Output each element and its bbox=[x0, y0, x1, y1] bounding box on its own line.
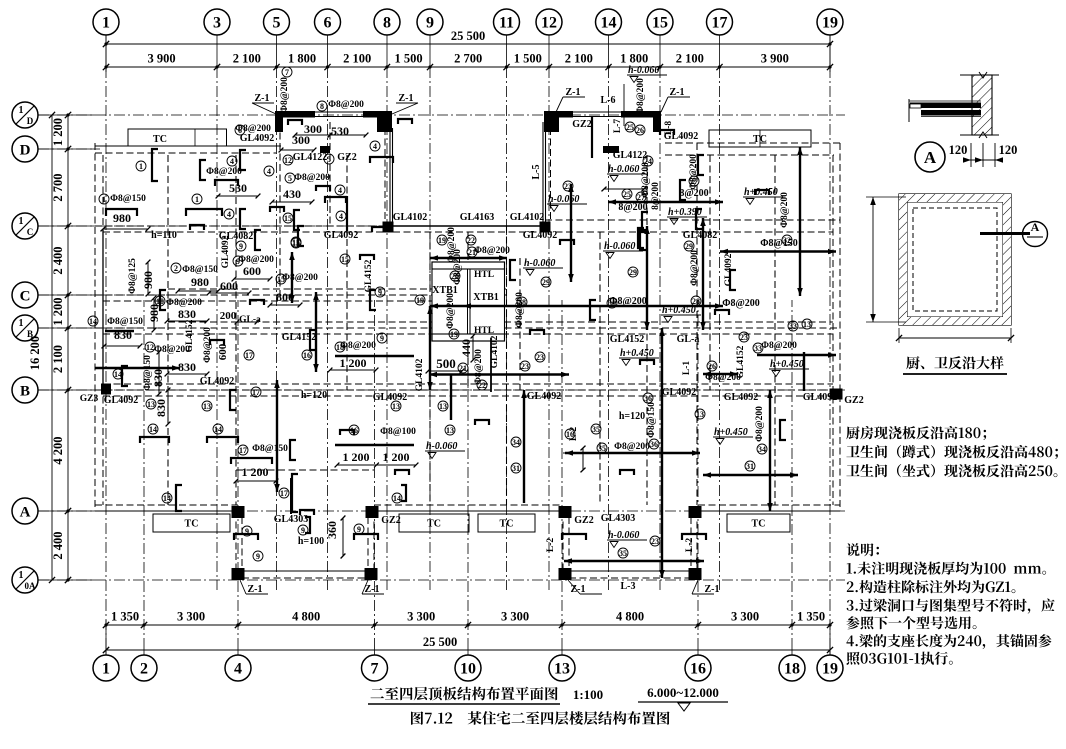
svg-text:Φ8@125: Φ8@125 bbox=[128, 258, 138, 294]
grid bubble 8 (top) bbox=[374, 9, 400, 35]
grid bubble 16 (bottom) bbox=[685, 655, 711, 681]
svg-text:24: 24 bbox=[644, 157, 652, 166]
svg-text:2 400: 2 400 bbox=[51, 246, 65, 274]
svg-text:Φ8@200: Φ8@200 bbox=[705, 373, 741, 383]
svg-text:Z-1: Z-1 bbox=[399, 93, 414, 104]
svg-text:GL4102: GL4102 bbox=[393, 212, 427, 223]
column (545,227) bbox=[540, 222, 551, 233]
grid bubble 15 (top) bbox=[647, 9, 673, 35]
svg-text:980: 980 bbox=[113, 211, 131, 225]
svg-text:2 100: 2 100 bbox=[51, 345, 65, 373]
svg-text:23: 23 bbox=[740, 333, 748, 342]
column (836,394) bbox=[830, 389, 843, 400]
svg-text:h=100: h=100 bbox=[298, 536, 324, 547]
svg-text:4 800: 4 800 bbox=[616, 610, 644, 624]
svg-text:Φ8@150: Φ8@150 bbox=[647, 402, 657, 438]
plan title bbox=[371, 687, 558, 701]
svg-text:19: 19 bbox=[438, 236, 446, 245]
svg-text:9: 9 bbox=[380, 334, 384, 343]
svg-text:GL4092: GL4092 bbox=[662, 387, 696, 398]
beam 34 phi8@200 vertical bbox=[769, 390, 771, 511]
column (106,389) bbox=[101, 384, 111, 395]
grid bubble 13 (bottom) bbox=[549, 655, 575, 681]
svg-text:35: 35 bbox=[592, 425, 600, 434]
svg-text:19: 19 bbox=[822, 15, 838, 32]
svg-text:6.000~12.000: 6.000~12.000 bbox=[647, 685, 719, 700]
svg-text:1 350: 1 350 bbox=[111, 610, 139, 624]
svg-text:GL4122: GL4122 bbox=[293, 152, 327, 163]
svg-text:3 300: 3 300 bbox=[177, 610, 205, 624]
svg-text:Φ8@200: Φ8@200 bbox=[446, 293, 456, 329]
grid bubble 1 (top) bbox=[93, 9, 119, 35]
svg-text:2: 2 bbox=[174, 264, 178, 273]
svg-text:18: 18 bbox=[784, 661, 800, 678]
svg-text:Z-1: Z-1 bbox=[248, 584, 263, 595]
svg-text:h+0.390: h+0.390 bbox=[668, 207, 702, 218]
svg-text:GL4092: GL4092 bbox=[527, 391, 561, 402]
leader lines bbox=[252, 102, 274, 104]
svg-text:9: 9 bbox=[236, 257, 240, 266]
svg-text:10: 10 bbox=[156, 297, 164, 306]
svg-text:13: 13 bbox=[696, 410, 704, 419]
svg-text:1: 1 bbox=[19, 105, 24, 116]
svg-text:Φ8@200: Φ8@200 bbox=[474, 349, 484, 385]
grid bubble 4 (bottom) bbox=[225, 655, 251, 681]
svg-text:h-0.060: h-0.060 bbox=[628, 65, 659, 76]
svg-text:21: 21 bbox=[468, 248, 476, 257]
svg-text:HTL: HTL bbox=[474, 270, 494, 280]
svg-text:1 800: 1 800 bbox=[620, 52, 648, 66]
svg-text:h+0.450: h+0.450 bbox=[662, 305, 696, 316]
svg-text:h-0.060: h-0.060 bbox=[426, 441, 457, 452]
column (388,227) bbox=[383, 222, 394, 233]
svg-text:L-2: L-2 bbox=[685, 538, 695, 553]
note item 3 bbox=[847, 599, 1055, 614]
svg-text:Φ8@200: Φ8@200 bbox=[474, 246, 510, 256]
svg-text:L-6: L-6 bbox=[601, 95, 616, 106]
svg-text:9: 9 bbox=[245, 527, 249, 536]
svg-text:18: 18 bbox=[336, 343, 344, 352]
beam 32 phi8@200 vertical bbox=[799, 147, 801, 296]
svg-text:9: 9 bbox=[357, 525, 361, 534]
note line 2 bbox=[846, 445, 1058, 459]
left dimension chain bbox=[51, 115, 53, 580]
svg-text:2: 2 bbox=[140, 661, 148, 678]
svg-text:600: 600 bbox=[220, 279, 238, 293]
svg-text:Φ8@200: Φ8@200 bbox=[282, 273, 318, 283]
svg-text:26: 26 bbox=[636, 126, 644, 135]
detail dim bottom bbox=[899, 337, 1011, 339]
svg-text:L-3: L-3 bbox=[621, 581, 636, 592]
svg-text:200: 200 bbox=[220, 310, 237, 322]
interior partition walls bbox=[167, 155, 169, 505]
svg-text:120: 120 bbox=[999, 143, 1018, 157]
svg-text:GL4152: GL4152 bbox=[610, 334, 644, 345]
svg-text:TC: TC bbox=[752, 519, 766, 530]
svg-text:1: 1 bbox=[139, 162, 143, 171]
svg-text:h=120: h=120 bbox=[301, 390, 327, 401]
svg-text:9: 9 bbox=[256, 552, 260, 561]
svg-text:4: 4 bbox=[339, 212, 343, 221]
svg-text:16: 16 bbox=[566, 430, 574, 439]
svg-text:GL4152: GL4152 bbox=[185, 319, 195, 352]
svg-text:GL4092: GL4092 bbox=[724, 253, 734, 286]
svg-text:1: 1 bbox=[102, 661, 110, 678]
svg-text:XTB1: XTB1 bbox=[473, 292, 499, 303]
svg-text:1 200: 1 200 bbox=[340, 356, 367, 370]
svg-text:TC: TC bbox=[500, 519, 514, 530]
svg-text:36: 36 bbox=[650, 440, 658, 449]
notes header bbox=[847, 543, 879, 556]
svg-text:29: 29 bbox=[542, 278, 550, 287]
svg-text:1: 1 bbox=[102, 15, 110, 32]
svg-text:3: 3 bbox=[213, 15, 221, 32]
beam 23 8@200 bbox=[608, 201, 723, 203]
detail dim left bbox=[872, 197, 874, 322]
svg-text:19: 19 bbox=[822, 661, 838, 678]
svg-text:23: 23 bbox=[536, 353, 544, 362]
svg-text:Φ8@200: Φ8@200 bbox=[340, 341, 376, 351]
svg-text:1: 1 bbox=[19, 216, 24, 227]
svg-text:7: 7 bbox=[285, 68, 289, 77]
svg-text:Φ8@200: Φ8@200 bbox=[636, 78, 646, 114]
grid bubble 2 (bottom) bbox=[131, 655, 157, 681]
svg-text:22: 22 bbox=[467, 236, 475, 245]
svg-text:830: 830 bbox=[151, 369, 165, 387]
beam 33 phi8@200 bbox=[757, 354, 836, 356]
svg-text:13: 13 bbox=[392, 402, 400, 411]
svg-text:22: 22 bbox=[478, 381, 486, 390]
svg-text:GL4152: GL4152 bbox=[282, 332, 316, 343]
wall beam on axis 1/D left unit bbox=[275, 111, 315, 118]
grid bubble 17 (top) bbox=[707, 9, 733, 35]
svg-text:600: 600 bbox=[217, 343, 229, 360]
beam 22 vertical bbox=[429, 306, 431, 390]
svg-text:16: 16 bbox=[350, 426, 358, 435]
grid bubble 1 (bottom) bbox=[93, 655, 119, 681]
svg-text:GL4122: GL4122 bbox=[613, 150, 647, 161]
small dimension segments bbox=[103, 228, 148, 230]
beam 16 phi8@100 bbox=[335, 444, 414, 446]
svg-text:23: 23 bbox=[564, 182, 572, 191]
svg-text:GL4152: GL4152 bbox=[364, 259, 374, 292]
svg-text:8@200: 8@200 bbox=[651, 182, 661, 210]
beam 830 left bbox=[95, 367, 180, 369]
svg-text:GL4092: GL4092 bbox=[221, 235, 231, 268]
svg-text:34: 34 bbox=[758, 445, 766, 454]
svg-text:35: 35 bbox=[598, 444, 606, 453]
svg-text:5: 5 bbox=[327, 155, 331, 164]
grid bubble 19 (top) bbox=[817, 9, 843, 35]
lintel black bars GL4122 bbox=[320, 146, 330, 153]
svg-text:GL4082: GL4082 bbox=[683, 230, 717, 241]
svg-text:Φ8@200: Φ8@200 bbox=[328, 100, 364, 110]
svg-text:20: 20 bbox=[451, 272, 459, 281]
svg-text:1 200: 1 200 bbox=[383, 450, 410, 464]
beam 26 phi8@200 bbox=[703, 373, 738, 375]
svg-text:3 300: 3 300 bbox=[731, 610, 759, 624]
svg-text:3 900: 3 900 bbox=[147, 52, 175, 66]
svg-text:Z-1: Z-1 bbox=[705, 584, 720, 595]
grid bubble 18 (bottom) bbox=[779, 655, 805, 681]
svg-text:2 100: 2 100 bbox=[565, 52, 593, 66]
svg-text:11: 11 bbox=[499, 15, 514, 32]
svg-text:0A: 0A bbox=[25, 581, 37, 591]
svg-text:500: 500 bbox=[436, 356, 456, 371]
svg-text:Φ8@200: Φ8@200 bbox=[447, 227, 457, 263]
column (695,512) bbox=[689, 506, 702, 518]
note line 3 bbox=[846, 464, 1057, 477]
svg-text:16: 16 bbox=[690, 661, 706, 678]
svg-text:15: 15 bbox=[277, 275, 285, 284]
svg-text:17: 17 bbox=[252, 388, 260, 397]
svg-text:GZ2: GZ2 bbox=[574, 515, 593, 526]
svg-text:12: 12 bbox=[541, 15, 557, 32]
svg-text:1: 1 bbox=[19, 318, 24, 329]
svg-text:2 100: 2 100 bbox=[343, 52, 371, 66]
svg-text:A: A bbox=[924, 148, 937, 167]
svg-text:31: 31 bbox=[512, 464, 520, 473]
svg-text:13: 13 bbox=[203, 402, 211, 411]
svg-text:16: 16 bbox=[303, 351, 311, 360]
detail: kitchen/bath upstand plan bbox=[899, 194, 1011, 325]
svg-text:17: 17 bbox=[239, 446, 247, 455]
grid bubble 7 (bottom) bbox=[362, 655, 388, 681]
stair shaft XTB1 bbox=[432, 262, 505, 341]
svg-text:GL-a: GL-a bbox=[677, 334, 700, 345]
svg-text:16 200: 16 200 bbox=[28, 336, 42, 370]
svg-text:9: 9 bbox=[378, 288, 382, 297]
svg-text:Φ8@200: Φ8@200 bbox=[761, 341, 797, 351]
grid bubble 11 (top) bbox=[494, 9, 520, 35]
svg-text:5: 5 bbox=[273, 15, 281, 32]
svg-text:D: D bbox=[20, 143, 31, 159]
svg-text:B: B bbox=[27, 329, 33, 339]
svg-text:29: 29 bbox=[685, 242, 693, 251]
svg-text:Φ8@200: Φ8@200 bbox=[755, 406, 765, 442]
svg-text:25: 25 bbox=[626, 123, 634, 132]
svg-text:GL4303: GL4303 bbox=[601, 513, 635, 524]
building outer walls bbox=[95, 145, 281, 147]
svg-text:A: A bbox=[1031, 220, 1040, 234]
svg-text:23: 23 bbox=[651, 537, 659, 546]
svg-text:14: 14 bbox=[89, 317, 97, 326]
svg-text:GL4163: GL4163 bbox=[460, 212, 494, 223]
beam 31 right bbox=[703, 474, 798, 476]
beam 21/23 below stair bbox=[429, 373, 569, 375]
bottom dimension chain bbox=[106, 624, 830, 626]
beam 21 at stair top bbox=[430, 257, 507, 259]
svg-text:3 900: 3 900 bbox=[761, 52, 789, 66]
beam 15 vertical bbox=[291, 252, 293, 303]
note item 1 bbox=[847, 562, 1046, 575]
svg-text:A: A bbox=[20, 505, 31, 521]
svg-text:Z-1: Z-1 bbox=[255, 93, 270, 104]
svg-text:L-7: L-7 bbox=[613, 119, 623, 134]
svg-text:14: 14 bbox=[601, 15, 617, 32]
svg-text:L-1: L-1 bbox=[682, 361, 692, 376]
svg-text:Φ8@200: Φ8@200 bbox=[614, 442, 650, 452]
svg-text:h+0.450: h+0.450 bbox=[714, 427, 748, 438]
svg-text:Φ8@200: Φ8@200 bbox=[203, 327, 213, 363]
svg-text:h=120: h=120 bbox=[619, 411, 645, 422]
note line 1 bbox=[846, 426, 986, 440]
svg-text:h+0.450: h+0.450 bbox=[744, 187, 778, 198]
svg-text:Φ8@150: Φ8@150 bbox=[110, 194, 146, 204]
svg-text:36: 36 bbox=[644, 394, 652, 403]
svg-text:25 500: 25 500 bbox=[451, 29, 485, 43]
svg-text:Φ8@200: Φ8@200 bbox=[722, 298, 760, 309]
beam 24 vertical bbox=[646, 226, 648, 330]
svg-text:8: 8 bbox=[320, 102, 324, 111]
svg-text:h-0.060: h-0.060 bbox=[524, 258, 555, 269]
svg-text:GL4092: GL4092 bbox=[104, 395, 138, 406]
column (372,512) bbox=[366, 506, 379, 518]
svg-text:33: 33 bbox=[754, 344, 762, 353]
svg-text:980: 980 bbox=[147, 304, 161, 322]
left grid bubbles bbox=[12, 102, 38, 128]
vertical grid centerlines bbox=[105, 35, 107, 66]
beam 17 vertical left unit bbox=[276, 380, 278, 492]
svg-text:GL4102: GL4102 bbox=[415, 358, 425, 391]
svg-text:1 500: 1 500 bbox=[394, 52, 422, 66]
svg-text:14: 14 bbox=[114, 370, 122, 379]
beam (430,306)-(463,306) bbox=[430, 305, 463, 307]
svg-text:h-0.060: h-0.060 bbox=[608, 530, 639, 541]
svg-text:17: 17 bbox=[712, 15, 728, 32]
svg-text:1:100: 1:100 bbox=[573, 687, 603, 702]
note item 4b bbox=[847, 652, 953, 665]
beam 36 phi8@150 vertical bbox=[661, 328, 663, 578]
svg-text:1 200: 1 200 bbox=[51, 118, 65, 146]
svg-text:12: 12 bbox=[146, 343, 154, 352]
note item 4 bbox=[846, 634, 1051, 649]
column (238,574) bbox=[232, 568, 245, 580]
svg-text:14: 14 bbox=[149, 425, 157, 434]
svg-text:300: 300 bbox=[292, 133, 310, 147]
svg-text:1 800: 1 800 bbox=[288, 52, 316, 66]
svg-text:2 100: 2 100 bbox=[676, 52, 704, 66]
beam 16 vertical left of stair bbox=[315, 292, 317, 372]
svg-text:2 400: 2 400 bbox=[51, 531, 65, 559]
svg-text:2 700: 2 700 bbox=[454, 52, 482, 66]
svg-text:Φ8@200: Φ8@200 bbox=[280, 77, 290, 113]
svg-text:3 300: 3 300 bbox=[501, 610, 529, 624]
detail title bbox=[906, 356, 1003, 369]
svg-text:h-0.060: h-0.060 bbox=[604, 241, 635, 252]
svg-text:C: C bbox=[27, 227, 34, 237]
svg-text:830: 830 bbox=[178, 360, 196, 374]
svg-text:4 800: 4 800 bbox=[292, 610, 320, 624]
svg-text:Φ8@200: Φ8@200 bbox=[294, 173, 330, 183]
wall beam on axis 1/D right unit bbox=[544, 111, 573, 118]
TC window boxes bbox=[128, 129, 227, 146]
svg-text:L-5: L-5 bbox=[531, 165, 542, 180]
svg-text:Φ8@100: Φ8@100 bbox=[380, 427, 416, 437]
svg-text:Φ8@150: Φ8@150 bbox=[252, 444, 288, 454]
svg-text:2 700: 2 700 bbox=[51, 173, 65, 201]
svg-text:1 200: 1 200 bbox=[343, 450, 370, 464]
svg-text:21: 21 bbox=[459, 364, 467, 373]
svg-text:Φ8@150: Φ8@150 bbox=[107, 317, 143, 327]
svg-text:800: 800 bbox=[276, 290, 294, 304]
svg-text:GL4092: GL4092 bbox=[664, 131, 698, 142]
svg-text:h=110: h=110 bbox=[151, 230, 177, 241]
svg-text:33: 33 bbox=[789, 322, 797, 331]
svg-text:4: 4 bbox=[234, 661, 242, 678]
svg-text:GL4092: GL4092 bbox=[324, 230, 358, 241]
beam 35 phi8@200 bbox=[565, 452, 700, 454]
svg-text:1: 1 bbox=[102, 195, 106, 204]
svg-text:GZ2: GZ2 bbox=[572, 119, 591, 130]
top dimension chain bbox=[106, 43, 830, 45]
svg-text:600: 600 bbox=[243, 264, 261, 278]
svg-text:530: 530 bbox=[331, 124, 349, 138]
column (238,512) bbox=[232, 506, 245, 518]
svg-text:13: 13 bbox=[446, 426, 454, 435]
svg-text:h+0.450: h+0.450 bbox=[620, 348, 654, 359]
svg-text:6: 6 bbox=[238, 126, 242, 135]
svg-text:440: 440 bbox=[459, 339, 473, 357]
svg-text:GL4303: GL4303 bbox=[274, 514, 308, 525]
svg-text:830: 830 bbox=[154, 399, 168, 417]
svg-text:25: 25 bbox=[623, 190, 631, 199]
svg-text:h+0.450: h+0.450 bbox=[770, 359, 804, 370]
column (565,512) bbox=[559, 506, 572, 518]
note item 3b bbox=[846, 616, 976, 629]
grid bubble 14 (top) bbox=[596, 9, 622, 35]
beam 23 vertical near L-5 bbox=[570, 184, 572, 282]
svg-text:4: 4 bbox=[373, 142, 377, 151]
grid bubble 9 (top) bbox=[417, 9, 443, 35]
beam 30/28 phi8@200 bbox=[463, 305, 723, 307]
svg-text:31: 31 bbox=[746, 462, 754, 471]
svg-text:D: D bbox=[27, 116, 34, 126]
beam L-3 porch bbox=[564, 560, 704, 562]
svg-text:13: 13 bbox=[554, 661, 570, 678]
svg-text:13: 13 bbox=[147, 400, 155, 409]
grid bubble 6 (top) bbox=[315, 9, 341, 35]
slab in detail A bbox=[908, 99, 910, 122]
svg-text:GL4092: GL4092 bbox=[724, 392, 758, 403]
svg-text:980: 980 bbox=[141, 271, 155, 289]
svg-text:Φ8@200: Φ8@200 bbox=[166, 298, 202, 308]
svg-text:Z-1: Z-1 bbox=[670, 87, 685, 98]
svg-text:5: 5 bbox=[288, 174, 292, 183]
svg-text:GL4092: GL4092 bbox=[240, 133, 274, 144]
svg-text:GL4092: GL4092 bbox=[803, 392, 837, 403]
svg-text:GL4092: GL4092 bbox=[523, 230, 557, 241]
beam 31 phi8@150 bbox=[720, 250, 836, 252]
svg-text:6: 6 bbox=[324, 15, 332, 32]
svg-text:Φ8@150: Φ8@150 bbox=[182, 265, 218, 275]
svg-text:Z-1: Z-1 bbox=[365, 584, 380, 595]
lintel bracket marks bbox=[288, 120, 302, 125]
svg-text:23: 23 bbox=[521, 362, 529, 371]
svg-text:13: 13 bbox=[439, 402, 447, 411]
svg-text:830: 830 bbox=[114, 328, 132, 342]
svg-text:GL4102: GL4102 bbox=[510, 212, 544, 223]
svg-text:TC: TC bbox=[153, 134, 167, 145]
svg-text:GZ3: GZ3 bbox=[80, 394, 99, 404]
note item 2 bbox=[847, 580, 1016, 593]
svg-text:4: 4 bbox=[267, 167, 271, 176]
svg-text:3 300: 3 300 bbox=[407, 610, 435, 624]
svg-text:GZ2: GZ2 bbox=[844, 395, 863, 406]
svg-text:9: 9 bbox=[301, 526, 305, 535]
svg-text:15: 15 bbox=[652, 15, 668, 32]
svg-text:2 100: 2 100 bbox=[233, 52, 261, 66]
